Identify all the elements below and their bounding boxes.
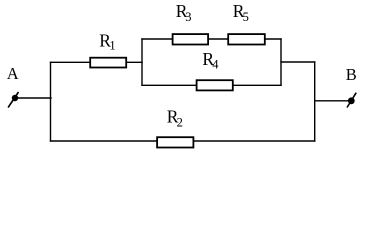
svg-text:1: 1	[109, 38, 115, 52]
svg-text:A: A	[7, 64, 19, 83]
svg-text:2: 2	[177, 116, 183, 130]
svg-text:B: B	[346, 65, 357, 84]
svg-text:4: 4	[212, 58, 219, 72]
svg-text:5: 5	[243, 10, 249, 24]
svg-text:3: 3	[185, 10, 191, 24]
